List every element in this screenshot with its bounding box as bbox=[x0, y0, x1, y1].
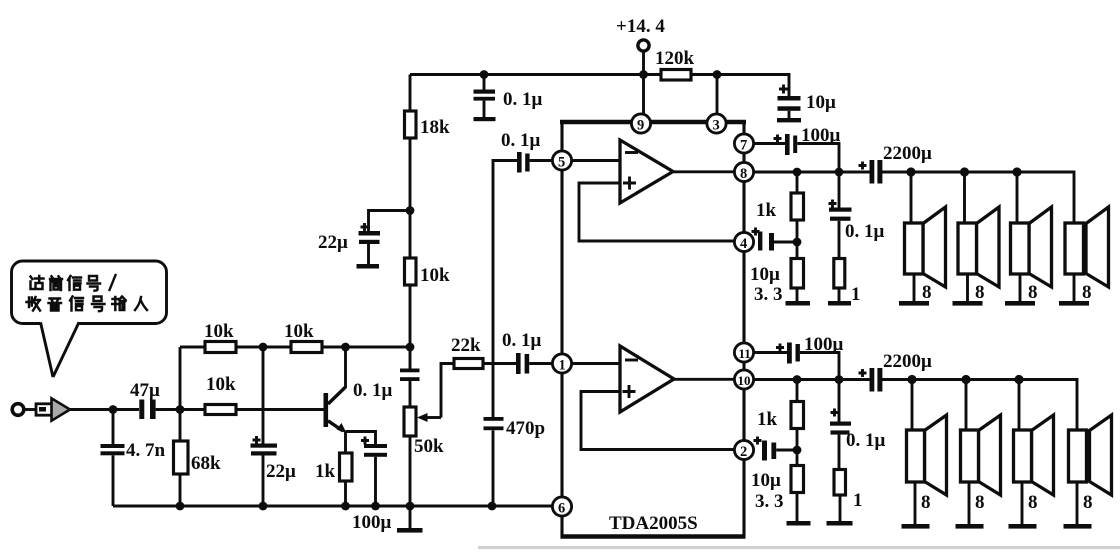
resistor 3.3 lower bbox=[751, 466, 804, 522]
svg-text:8: 8 bbox=[975, 492, 985, 513]
svg-text:10k: 10k bbox=[204, 321, 234, 342]
wire 470p riser bbox=[493, 161, 517, 507]
resistor 10k base bbox=[205, 374, 236, 415]
svg-text:2200μ: 2200μ bbox=[883, 351, 932, 372]
svg-text:1k: 1k bbox=[757, 409, 778, 430]
capacitor 0.1u supply decoupling bbox=[474, 75, 543, 118]
callout balloon bbox=[12, 261, 167, 377]
svg-text:8: 8 bbox=[1028, 282, 1038, 303]
speaker SP4 bbox=[1059, 207, 1109, 306]
callout text line2 hao bbox=[92, 297, 105, 312]
svg-text:10k: 10k bbox=[206, 374, 236, 395]
svg-text:10μ: 10μ bbox=[751, 470, 781, 491]
svg-text:8: 8 bbox=[1028, 492, 1038, 513]
resistor 18k bbox=[405, 111, 451, 138]
resistor 10k bias top-left bbox=[204, 321, 236, 353]
wire U1b feedback from pin2 bbox=[581, 392, 735, 450]
svg-text:1: 1 bbox=[853, 490, 863, 511]
callout text line1 hao bbox=[88, 276, 101, 291]
svg-text:3: 3 bbox=[713, 118, 720, 134]
IC TDA2005S outline bbox=[560, 122, 746, 537]
resistor 10k bias top-right bbox=[284, 321, 322, 353]
svg-text:2200μ: 2200μ bbox=[883, 143, 932, 164]
wire emitter node bbox=[346, 432, 376, 454]
pin 9 bbox=[631, 114, 650, 134]
svg-text:5: 5 bbox=[558, 155, 565, 171]
wire pin3 lead bbox=[716, 75, 719, 115]
pin 10 bbox=[734, 370, 753, 389]
op-amp U1b bbox=[620, 346, 674, 412]
ground under 1 lower bbox=[827, 521, 853, 526]
capacitor 470p bbox=[484, 417, 546, 439]
wire pin11 line bbox=[754, 351, 787, 354]
svg-text:100μ: 100μ bbox=[804, 334, 844, 355]
capacitor 10u pin4 bbox=[752, 228, 798, 251]
ground under 3.3 lower bbox=[787, 521, 811, 526]
capacitor 0.1u zobel upper bbox=[829, 172, 885, 259]
svg-text:1: 1 bbox=[851, 284, 861, 305]
speaker SP6 bbox=[956, 380, 1001, 529]
svg-text:2: 2 bbox=[740, 444, 747, 460]
svg-text:8: 8 bbox=[740, 166, 747, 182]
callout text line1 xin bbox=[68, 276, 81, 290]
node junction dots bbox=[109, 70, 1024, 510]
svg-text:8: 8 bbox=[1083, 492, 1093, 513]
capacitor 10u pin2 bbox=[754, 437, 798, 461]
svg-text:10μ: 10μ bbox=[806, 92, 836, 113]
svg-text:22μ: 22μ bbox=[318, 232, 348, 253]
capacitor 22u divider bypass bbox=[318, 211, 410, 265]
speaker SP3 bbox=[1005, 172, 1052, 306]
svg-text:9: 9 bbox=[637, 118, 644, 134]
svg-text:8: 8 bbox=[975, 282, 985, 303]
svg-text:1k: 1k bbox=[315, 461, 336, 482]
resistor 120k bbox=[655, 48, 695, 80]
wire top supply rail bbox=[410, 75, 789, 97]
wire U1a feedback from pin4 bbox=[579, 183, 735, 241]
callout text line2 xin bbox=[70, 297, 83, 311]
svg-text:0. 1μ: 0. 1μ bbox=[501, 130, 541, 151]
svg-text:4: 4 bbox=[740, 236, 747, 252]
speaker SP8 bbox=[1064, 415, 1112, 529]
svg-text:3. 3: 3. 3 bbox=[755, 491, 784, 512]
pin 1 bbox=[552, 354, 571, 374]
capacitor 0.1u tone bbox=[353, 369, 420, 402]
resistor 1k lower feedback bbox=[757, 380, 804, 466]
capacitor 22u bias bypass bbox=[251, 347, 297, 506]
wire U1b -input bbox=[572, 362, 621, 365]
wire U1b output bbox=[674, 378, 735, 381]
capacitor 100u upper bootstrap bbox=[774, 125, 841, 172]
resistor 1k upper feedback bbox=[756, 172, 804, 259]
ground under 3.3 upper bbox=[786, 301, 811, 306]
svg-text:0. 1μ: 0. 1μ bbox=[503, 89, 543, 110]
pin 4 bbox=[734, 232, 753, 252]
svg-text:47μ: 47μ bbox=[130, 380, 160, 401]
svg-text:4. 7n: 4. 7n bbox=[126, 440, 166, 461]
resistor 22k bbox=[451, 335, 516, 369]
callout text line1 slash bbox=[110, 275, 116, 290]
svg-text:120k: 120k bbox=[655, 48, 695, 69]
speaker SP2 bbox=[953, 172, 1000, 306]
capacitor 0.1u to pin1 bbox=[502, 330, 552, 374]
svg-text:1k: 1k bbox=[756, 200, 777, 221]
svg-text:8: 8 bbox=[1082, 282, 1092, 303]
capacitor 100u emitter bypass bbox=[352, 437, 392, 534]
wire pin9 lead bbox=[642, 75, 645, 115]
svg-text:0. 1μ: 0. 1μ bbox=[845, 221, 885, 242]
wire left vertical bias line bbox=[409, 75, 412, 507]
wire ground rail bottom bbox=[113, 505, 552, 508]
capacitor 47u bbox=[130, 380, 205, 419]
transistor Q1 bbox=[324, 347, 347, 433]
capacitor 0.1u zobel lower bbox=[830, 380, 886, 470]
ground under 1 upper bbox=[828, 301, 851, 306]
capacitor 100u lower bootstrap bbox=[776, 334, 844, 380]
pin 2 bbox=[734, 440, 753, 460]
callout text line2 yin bbox=[49, 299, 62, 311]
svg-text:50k: 50k bbox=[414, 436, 444, 457]
potentiometer 50k bbox=[404, 364, 454, 458]
speaker SP5 bbox=[902, 380, 947, 529]
svg-text:0. 1μ: 0. 1μ bbox=[502, 330, 542, 351]
speaker SP1 bbox=[899, 172, 946, 306]
capacitor 2200u lower bbox=[859, 351, 933, 392]
pin 3 bbox=[707, 114, 726, 134]
resistor 3.3 upper bbox=[750, 259, 804, 306]
pin 11 bbox=[734, 343, 753, 362]
svg-text:10k: 10k bbox=[284, 321, 314, 342]
callout text line2 shou bbox=[27, 297, 41, 311]
svg-text:+14. 4: +14. 4 bbox=[616, 16, 665, 37]
wire top bias row bbox=[180, 346, 410, 349]
callout text line2 ru bbox=[135, 297, 147, 310]
pin 7 bbox=[734, 134, 753, 154]
svg-text:0. 1μ: 0. 1μ bbox=[353, 380, 393, 401]
svg-text:1: 1 bbox=[559, 358, 566, 374]
svg-text:6: 6 bbox=[558, 501, 565, 517]
resistor 1 zobel upper bbox=[834, 259, 861, 306]
svg-text:18k: 18k bbox=[420, 117, 450, 138]
svg-text:10: 10 bbox=[738, 373, 751, 388]
wire U1a -input bbox=[572, 159, 621, 162]
input block arrow bbox=[36, 398, 70, 420]
pin 8 bbox=[734, 162, 753, 182]
svg-text:8: 8 bbox=[922, 282, 932, 303]
wire pin10 output line bbox=[754, 380, 1077, 431]
wire bias vertical x180 bbox=[179, 347, 182, 506]
callout text line1 hua bbox=[31, 276, 44, 289]
scan smudge bbox=[478, 546, 1120, 549]
capacitor 10u supply bbox=[778, 85, 837, 119]
callout text line1 tong bbox=[50, 276, 62, 290]
svg-text:100μ: 100μ bbox=[352, 512, 392, 533]
svg-text:8: 8 bbox=[921, 492, 931, 513]
ground main rail bbox=[397, 506, 423, 533]
speaker SP7 bbox=[1009, 380, 1054, 529]
capacitor 2200u upper bbox=[859, 143, 933, 184]
svg-text:10k: 10k bbox=[420, 265, 450, 286]
pin 5 bbox=[552, 151, 571, 171]
capacitor 0.1u to pin5 bbox=[501, 130, 552, 173]
wire U1a output bbox=[673, 170, 735, 173]
svg-text:10μ: 10μ bbox=[750, 264, 780, 285]
pin 6 bbox=[552, 497, 571, 517]
wire pin7 line bbox=[754, 142, 785, 145]
resistor 68k bbox=[174, 441, 222, 474]
capacitor 4.7n bbox=[101, 410, 166, 507]
resistor 1 zobel lower bbox=[834, 470, 863, 522]
op-amp U1a bbox=[620, 140, 673, 203]
power terminal +14.4 bbox=[616, 16, 665, 75]
svg-text:470p: 470p bbox=[506, 418, 545, 439]
svg-text:100μ: 100μ bbox=[801, 125, 841, 146]
ground under 22u divider bbox=[357, 264, 380, 269]
svg-text:22μ: 22μ bbox=[266, 461, 296, 482]
ground under 0.1u decoupling bbox=[474, 117, 496, 121]
input terminal bbox=[12, 404, 36, 416]
resistor 10k divider bbox=[405, 258, 451, 286]
svg-text:22k: 22k bbox=[451, 335, 481, 356]
wire input line bbox=[70, 408, 139, 411]
wire pin8 output line bbox=[754, 172, 1074, 223]
callout text line2 shu bbox=[112, 297, 125, 311]
resistor 1k emitter bbox=[315, 453, 352, 506]
svg-text:68k: 68k bbox=[191, 453, 221, 474]
svg-text:11: 11 bbox=[739, 346, 751, 361]
svg-text:0. 1μ: 0. 1μ bbox=[846, 430, 886, 451]
wire base bbox=[236, 408, 324, 411]
svg-text:TDA2005S: TDA2005S bbox=[609, 513, 698, 534]
svg-text:7: 7 bbox=[740, 138, 747, 154]
ground under 10u bbox=[777, 118, 801, 122]
svg-text:3. 3: 3. 3 bbox=[754, 284, 783, 305]
